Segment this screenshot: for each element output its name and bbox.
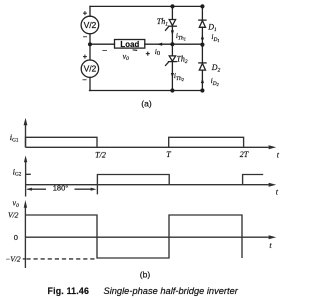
arrow iD2 (201, 78, 204, 83)
arrowhead iG1 vertical axis (24, 118, 28, 125)
svg-text:−: − (82, 76, 87, 85)
arrow iTh2 (171, 73, 174, 78)
tick v0 minus V/2 (23, 258, 26, 260)
mark under load box (133, 49, 138, 51)
svg-text:+: + (146, 49, 151, 58)
node A source midpoint dot (88, 42, 92, 46)
wire bottom rail (90, 90, 204, 92)
wire V2 bottom lead (89, 77, 91, 90)
wire top rail (90, 5, 204, 7)
arrow i0 on load wire (157, 43, 163, 46)
tick iG2 high level (26, 173, 31, 175)
diode D2 (199, 62, 206, 64)
wire V1 to node (89, 34, 91, 44)
source V1 circle (81, 16, 99, 34)
arrowhead dimension left (26, 188, 32, 191)
wire iG1 pulse 1 (26, 137, 98, 147)
svg-text:+: + (83, 52, 88, 61)
svg-text:0: 0 (14, 233, 18, 242)
axis iG1 horizontal (26, 146, 269, 148)
svg-text:+: + (83, 9, 88, 18)
arrowhead v0 time axis (269, 235, 277, 239)
svg-text:2T: 2T (240, 150, 249, 159)
wire thyristor branch upper (171, 6, 173, 19)
diode D1 (199, 19, 206, 21)
node bottom rail D junction dot (200, 88, 204, 92)
node top rail Th junction dot (170, 4, 174, 8)
svg-text:−: − (83, 33, 88, 42)
axis iG2 vertical (25, 162, 27, 197)
svg-text:180°: 180° (53, 184, 69, 193)
dimension 180 line right (75, 188, 92, 190)
axis iG2 horizontal (26, 184, 269, 186)
svg-text:T: T (166, 150, 171, 159)
node mid D junction dot (200, 43, 204, 47)
thyristor Th2 (169, 56, 175, 61)
svg-text:−V/2: −V/2 (5, 254, 21, 263)
arrowhead iG2 time axis (269, 183, 277, 187)
axis iG1 vertical (25, 125, 27, 148)
svg-text:V/2: V/2 (84, 64, 97, 74)
wire D2 to bottom rail (201, 70, 203, 90)
wire Th2 to bottom rail (171, 62, 173, 91)
load box (115, 40, 145, 49)
wire iG2 pulse 1 (97, 175, 169, 195)
wire load right (145, 43, 173, 45)
svg-text:(a): (a) (141, 99, 152, 109)
wire mid node to diode branch (172, 43, 202, 45)
svg-text:−: − (102, 45, 107, 55)
wire v0 square wave (25, 215, 242, 258)
node mid Th junction dot (170, 42, 174, 46)
node top rail D junction dot (200, 4, 204, 8)
arrowhead dimension right (91, 188, 97, 191)
wire load left (90, 43, 115, 45)
wire Th1 to mid node (171, 26, 173, 44)
dashed line minus V/2 (26, 258, 96, 260)
wire node to V2 (89, 44, 91, 60)
arrowhead iG2 vertical axis (24, 155, 27, 162)
arrow iD1 (201, 35, 204, 40)
wire mid node to Th2 (171, 44, 173, 56)
svg-text:Load: Load (120, 40, 139, 49)
dimension 180 line left (28, 188, 47, 190)
arrow iTh1 (171, 30, 174, 35)
svg-text:V/2: V/2 (8, 210, 19, 219)
axis v0 vertical (24, 207, 26, 268)
svg-text:Single-phase half-bridge inver: Single-phase half-bridge inverter (104, 286, 239, 296)
wire diode branch upper (201, 6, 203, 20)
thyristor Th1 (169, 20, 175, 26)
arrowhead v0 vertical axis (24, 200, 27, 208)
source V2 circle (81, 60, 98, 77)
wire mid node to D2 (201, 45, 203, 63)
svg-text:V/2: V/2 (84, 20, 97, 30)
arrowhead iG1 time axis (269, 145, 277, 149)
svg-text:Fig. 11.46: Fig. 11.46 (48, 286, 90, 296)
wire iG2 pulse 2 (243, 175, 264, 185)
svg-text:(b): (b) (140, 270, 151, 280)
wire iG1 pulse 2 (169, 137, 244, 147)
wire source V1 top lead (89, 6, 91, 16)
node bottom rail Th junction dot (170, 88, 174, 92)
axis v0 horizontal (25, 236, 268, 238)
svg-text:T/2: T/2 (95, 151, 106, 160)
wire D1 to mid node (201, 27, 203, 44)
